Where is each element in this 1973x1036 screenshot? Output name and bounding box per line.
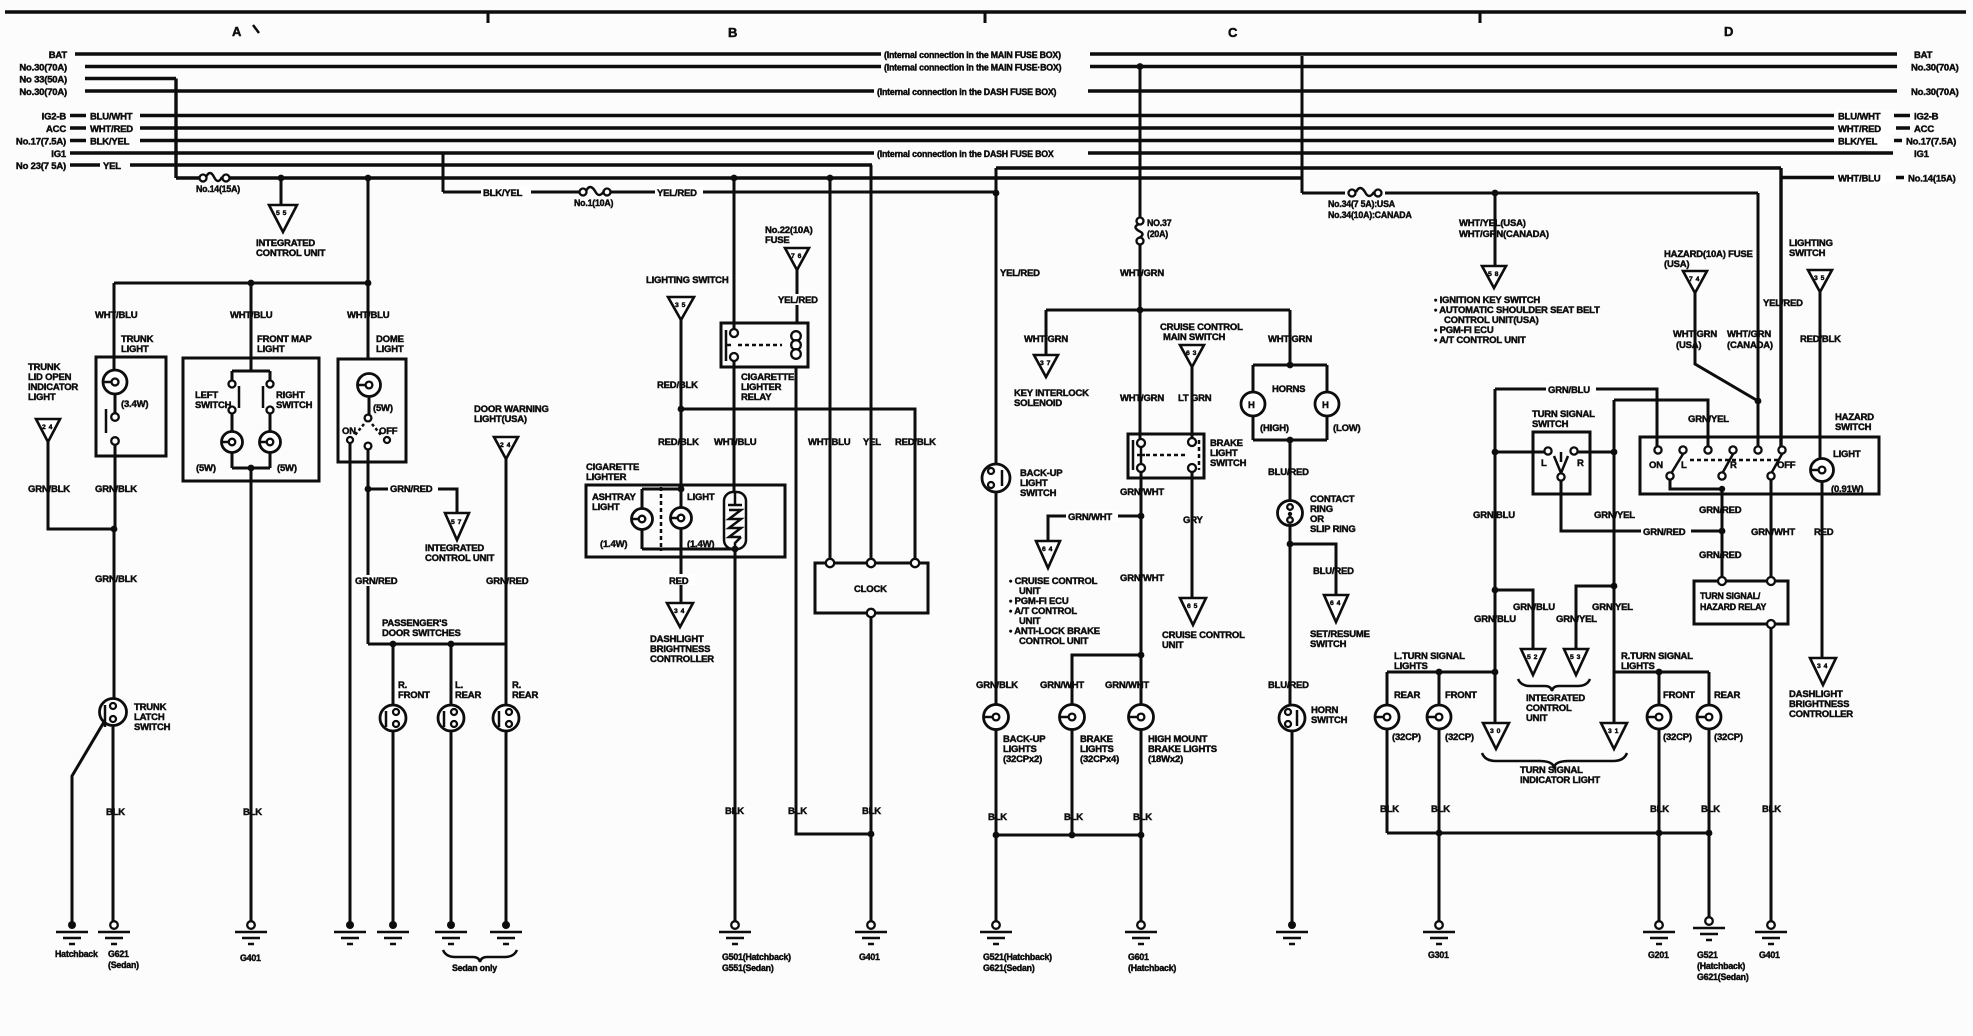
wire relay coil down BLK	[796, 367, 871, 834]
label WHT/BLU right	[1836, 172, 1894, 183]
wire L turn rail	[1387, 671, 1495, 674]
wire map inner split	[232, 359, 270, 381]
svg-text:No.14(15A): No.14(15A)	[1908, 174, 1956, 185]
svg-text:G301: G301	[1428, 950, 1449, 960]
svg-text:3 5: 3 5	[1814, 275, 1825, 282]
ground R rear	[502, 921, 510, 929]
junction setresume tee	[1287, 541, 1294, 548]
contact ring or slip ring	[1278, 501, 1303, 526]
junction cig top	[678, 486, 685, 493]
wire drop R rear	[505, 644, 508, 705]
wire brake lights branch	[1072, 655, 1141, 705]
svg-text:A: A	[232, 24, 242, 39]
junction dome GRN/RED tee	[365, 486, 372, 493]
relay pins D	[1718, 577, 1726, 585]
wire dome bulb to switch	[368, 396, 371, 415]
svg-text:6 4: 6 4	[1330, 600, 1341, 607]
junction rail Lrear	[448, 641, 455, 648]
svg-text:GRN/BLU: GRN/BLU	[1474, 614, 1516, 625]
wire relay feed drop	[733, 178, 736, 333]
horn low	[1315, 392, 1339, 416]
svg-text:WHT/GRN(CANADA): WHT/GRN(CANADA)	[1459, 229, 1549, 240]
svg-text:GRN/RED: GRN/RED	[1699, 505, 1742, 516]
bus line No.30(70A) top	[85, 65, 1897, 68]
bus line BAT	[75, 52, 1897, 55]
wire GRN/WHT out of brake switch	[1140, 472, 1143, 655]
wire trunk latch feed	[113, 529, 116, 699]
bulb brake lights	[1060, 705, 1085, 730]
wire A distribution	[114, 282, 368, 285]
svg-text:RED/BLK: RED/BLK	[658, 437, 699, 448]
wire YEL/RED backup drop	[995, 168, 998, 464]
wire hazard fuse usa diagonal	[1695, 293, 1758, 401]
svg-text:BLK: BLK	[243, 807, 262, 818]
wire horns frame	[1253, 365, 1327, 440]
wire ts right	[1578, 451, 1614, 454]
svg-text:LIGHT: LIGHT	[592, 502, 620, 513]
svg-text:GRN/WHT: GRN/WHT	[1068, 512, 1112, 523]
ground R front	[389, 921, 397, 929]
ground G401 A	[247, 921, 255, 929]
wire vertical from BAT to fuse34 line	[1301, 56, 1304, 193]
switch dome contacts	[365, 415, 372, 422]
brace turn signal indicator	[1482, 753, 1627, 767]
wire horns to contact ring	[1289, 440, 1292, 501]
bulb L front	[1427, 705, 1451, 729]
svg-text:(LOW): (LOW)	[1333, 423, 1361, 434]
connector 24 triangle trunk lid	[36, 419, 60, 442]
wire R turn rail	[1614, 671, 1709, 674]
svg-text:SWITCH: SWITCH	[195, 400, 232, 411]
junction horns bottom	[1287, 437, 1294, 444]
fuse No.1(10A)	[580, 189, 587, 196]
wire No.33 drop to fuse line	[174, 79, 177, 179]
box turn signal hazard relay	[1694, 581, 1788, 624]
brake switch pins	[1137, 439, 1145, 447]
wire trunk light drop	[113, 283, 116, 371]
wire GRN/RED relay feed	[1721, 489, 1724, 581]
svg-text:BLK/YEL: BLK/YEL	[1838, 137, 1878, 148]
svg-text:TURN SIGNAL/: TURN SIGNAL/	[1700, 591, 1761, 601]
connector 34 triangle dashlight D	[1810, 658, 1836, 685]
svg-text:WHT/GRN: WHT/GRN	[1120, 393, 1164, 404]
svg-text:BLU/RED: BLU/RED	[1268, 467, 1309, 478]
junction L turn front	[1436, 669, 1443, 676]
svg-text:3 4: 3 4	[674, 608, 685, 615]
svg-text:RED/BLK: RED/BLK	[657, 380, 698, 391]
junction usa canada join	[1755, 398, 1762, 405]
svg-text:CONTROL UNIT: CONTROL UNIT	[256, 248, 326, 259]
svg-text:IG1: IG1	[51, 149, 67, 160]
svg-text:6 5: 6 5	[1187, 603, 1198, 610]
svg-text:BLU/RED: BLU/RED	[1268, 680, 1309, 691]
svg-text:6 4: 6 4	[1042, 546, 1053, 553]
ground horn switch	[1288, 921, 1296, 929]
connector 63 triangle	[1180, 345, 1204, 367]
svg-text:(Internal connection in the DA: (Internal connection in the DASH FUSE BO…	[877, 87, 1057, 97]
ground G501	[731, 921, 739, 929]
wire RED hazard bulb down	[1821, 481, 1824, 658]
bulb L rear	[1375, 705, 1399, 729]
box clock	[815, 563, 928, 613]
bus line No.17(7.5A)	[70, 139, 1834, 142]
svg-text:RED/BLK: RED/BLK	[895, 437, 936, 448]
svg-text:WHT/GRN: WHT/GRN	[1120, 268, 1164, 279]
wire map light drop	[250, 283, 253, 371]
svg-text:CLOCK: CLOCK	[854, 584, 887, 595]
svg-text:LIGHT(USA): LIGHT(USA)	[474, 414, 527, 425]
wire latch to ground	[112, 726, 115, 925]
svg-text:FUSE: FUSE	[765, 235, 790, 246]
svg-text:YEL/RED: YEL/RED	[1763, 298, 1803, 309]
svg-text:H: H	[1322, 400, 1329, 411]
wire grnwht to ICU64	[1048, 516, 1141, 541]
svg-text:WHT/RED: WHT/RED	[90, 124, 133, 135]
box cigarette lighter	[586, 485, 785, 557]
label GRN/RED ts	[1641, 525, 1691, 536]
svg-text:LIGHTER: LIGHTER	[586, 472, 627, 483]
wire clock whtblu drop	[829, 178, 832, 563]
svg-text:(Sedan): (Sedan)	[108, 960, 139, 970]
svg-text:GRN/RED: GRN/RED	[1699, 550, 1742, 561]
ground dome ON	[346, 921, 354, 929]
svg-text:D: D	[1724, 24, 1733, 39]
svg-text:BLK: BLK	[1380, 804, 1399, 815]
ground hatchback	[68, 921, 76, 929]
svg-text:YEL/RED: YEL/RED	[657, 188, 697, 199]
svg-text:LIGHT: LIGHT	[257, 344, 285, 355]
svg-text:5 2: 5 2	[1527, 654, 1538, 661]
wire cruise main drop	[1191, 367, 1194, 439]
svg-text:R: R	[1577, 458, 1584, 469]
svg-text:REAR: REAR	[512, 690, 538, 701]
svg-text:LIGHT: LIGHT	[121, 344, 149, 355]
svg-text:SWITCH: SWITCH	[1210, 458, 1247, 469]
junction ICU55 tap	[278, 175, 285, 182]
box brake light switch	[1128, 434, 1204, 478]
bulb map right 5W	[260, 432, 281, 453]
wire highmount to bulb	[1140, 655, 1143, 705]
svg-text:FRONT: FRONT	[1663, 690, 1695, 701]
svg-text:BLK/YEL: BLK/YEL	[483, 188, 523, 199]
svg-text:WHT/BLU: WHT/BLU	[1838, 174, 1881, 185]
svg-text:LIGHTING SWITCH: LIGHTING SWITCH	[646, 275, 729, 286]
junction R turn front	[1656, 669, 1663, 676]
svg-text:No 33(50A): No 33(50A)	[19, 75, 67, 86]
svg-text:FRONT: FRONT	[1445, 690, 1477, 701]
wire dome ON to ground	[349, 443, 352, 925]
bulb R rear	[1697, 705, 1721, 729]
svg-text:IG2-B: IG2-B	[1914, 112, 1939, 123]
bulb high mount brake lights	[1129, 705, 1154, 730]
wire horns feed	[1289, 310, 1292, 365]
wire L front drop	[1438, 672, 1441, 705]
wire cig to ground G501	[734, 549, 737, 925]
svg-text:CONTROLLER: CONTROLLER	[1789, 709, 1853, 720]
svg-text:SWITCH: SWITCH	[1310, 639, 1347, 650]
svg-text:(HIGH): (HIGH)	[1260, 423, 1289, 434]
junction c rail 3	[1138, 832, 1145, 839]
svg-text:(CANADA): (CANADA)	[1727, 340, 1773, 351]
wire WHT/BLU dome feed drop	[367, 178, 370, 359]
ground G301	[1435, 921, 1443, 929]
switch trunk light contacts	[111, 413, 119, 421]
svg-text:G551(Sedan): G551(Sedan)	[722, 963, 774, 973]
svg-text:(1.4W): (1.4W)	[600, 539, 627, 550]
junction ts right	[1611, 449, 1618, 456]
wire cig inner bottom	[642, 528, 735, 549]
box hazard switch	[1640, 437, 1879, 494]
svg-text:(32CP): (32CP)	[1392, 732, 1421, 743]
bulb map left 5W	[222, 432, 243, 453]
label YEL/RED relay	[776, 294, 820, 305]
relay contacts	[730, 329, 738, 337]
bus line IG2-B	[70, 114, 1834, 117]
switch horn	[1279, 705, 1305, 731]
svg-text:CONTROLLER: CONTROLLER	[650, 654, 714, 665]
hazard bottom link	[1670, 480, 1722, 489]
svg-text:BLU/WHT: BLU/WHT	[1838, 112, 1881, 123]
wire GRN/YEL up link	[1614, 400, 1708, 672]
switch door R front	[380, 705, 406, 731]
switch dome levers	[355, 424, 381, 435]
label RED	[667, 574, 695, 585]
svg-text:(32CP): (32CP)	[1445, 732, 1474, 743]
wire map switch to bulbs	[232, 413, 270, 432]
wire clock to ground G401	[870, 617, 873, 925]
svg-text:GRN/YEL: GRN/YEL	[1688, 414, 1729, 425]
svg-text:(Hatchback): (Hatchback)	[1697, 961, 1745, 971]
svg-text:SLIP RING: SLIP RING	[1310, 524, 1356, 535]
wire map bulbs join	[232, 452, 270, 468]
wire R front to ground	[392, 731, 395, 925]
connector 64 triangle cruise	[1036, 541, 1060, 568]
connector 53 triangle	[1564, 649, 1588, 675]
wire door switch rail	[368, 643, 506, 646]
connector 35 triangle B	[668, 297, 694, 320]
svg-text:UNIT: UNIT	[1162, 640, 1184, 651]
svg-text:INDICATOR LIGHT: INDICATOR LIGHT	[1520, 775, 1600, 786]
wire ICU30 drop	[1494, 672, 1497, 723]
wire ts common GRN/RED	[1561, 481, 1722, 531]
svg-text:• A/T CONTROL UNIT: • A/T CONTROL UNIT	[1434, 335, 1526, 346]
svg-text:MAIN SWITCH: MAIN SWITCH	[1163, 332, 1226, 343]
bus line IG1	[70, 151, 1893, 154]
svg-text:NO.37: NO.37	[1147, 218, 1172, 228]
ground G521 D	[1705, 917, 1713, 925]
svg-text:No.30(70A): No.30(70A)	[1911, 63, 1959, 74]
junction horns top	[1287, 362, 1294, 369]
svg-text:5 5: 5 5	[276, 210, 287, 217]
connector 35 triangle D	[1808, 270, 1832, 292]
box cigarette lighter relay	[721, 323, 808, 367]
svg-text:G621: G621	[108, 949, 129, 959]
wire WHT/YEL drop to 58	[1494, 193, 1497, 266]
label BLK/YEL fuse1	[481, 186, 531, 197]
wire GRN/RED to ICU57	[368, 489, 457, 513]
svg-text:WHT/BLU: WHT/BLU	[347, 310, 390, 321]
junction relay feed tap	[731, 175, 738, 182]
hazard levers	[1672, 454, 1782, 472]
junction triangle58 tap	[1492, 190, 1499, 197]
wire WHT/GRN canada drop	[1757, 193, 1760, 450]
svg-text:R: R	[1730, 460, 1737, 471]
svg-text:(0.91W): (0.91W)	[1831, 484, 1863, 495]
svg-text:(Internal connection in the MA: (Internal connection in the MAIN FUSE·BO…	[884, 63, 1062, 73]
svg-text:WHT/RED: WHT/RED	[1838, 124, 1881, 135]
junction c rail 2	[1069, 832, 1076, 839]
svg-text:(3.4W): (3.4W)	[121, 399, 148, 410]
junction trunk wire join	[111, 526, 118, 533]
svg-text:No.34(7 5A):USA: No.34(7 5A):USA	[1328, 199, 1396, 209]
bulb R front	[1647, 705, 1671, 729]
svg-text:BAT: BAT	[1914, 50, 1933, 61]
wire relay D to ground	[1770, 628, 1773, 925]
svg-text:UNIT: UNIT	[1526, 713, 1548, 724]
ground G201	[1655, 921, 1663, 929]
wire brake bulb down	[1071, 729, 1074, 835]
horn high	[1241, 392, 1265, 416]
svg-text:BLK: BLK	[1701, 804, 1720, 815]
connector 37 triangle	[1034, 355, 1058, 377]
svg-text:SWITCH: SWITCH	[276, 400, 313, 411]
heater element cigarette lighter	[724, 492, 746, 549]
wire R rear drop	[1708, 672, 1711, 705]
junction grnyel branch	[1611, 583, 1618, 590]
svg-text:(32CP): (32CP)	[1714, 732, 1743, 743]
svg-text:(Internal connection in the MA: (Internal connection in the MAIN FUSE BO…	[884, 50, 1061, 60]
svg-text:G501(Hatchback): G501(Hatchback)	[722, 952, 791, 962]
wire L rear bulb down	[1386, 729, 1389, 833]
wire GRY out	[1191, 472, 1194, 598]
svg-text:C: C	[1228, 25, 1238, 40]
svg-text:GRN/WHT: GRN/WHT	[1751, 527, 1795, 538]
svg-text:BLK: BLK	[106, 807, 125, 818]
svg-text:BLK: BLK	[1762, 804, 1781, 815]
svg-text:(20A): (20A)	[1147, 229, 1168, 239]
label WHT/RED right	[1836, 123, 1896, 134]
svg-text:DOOR SWITCHES: DOOR SWITCHES	[382, 628, 461, 639]
svg-text:ACC: ACC	[46, 124, 66, 135]
svg-text:ON: ON	[1649, 460, 1663, 471]
wire drop R front	[392, 644, 395, 705]
switch trunk latch	[100, 699, 127, 726]
hazard bottom contacts	[1666, 472, 1673, 479]
svg-text:GRN/WHT: GRN/WHT	[1120, 573, 1164, 584]
svg-text:REAR: REAR	[455, 690, 481, 701]
svg-text:FRONT: FRONT	[398, 690, 430, 701]
svg-text:GRN/WHT: GRN/WHT	[1040, 680, 1084, 691]
junction grnred join	[1719, 528, 1726, 535]
wire door warning drop	[505, 459, 508, 644]
svg-text:GRN/WHT: GRN/WHT	[1120, 487, 1164, 498]
connector 55 triangle	[269, 205, 297, 232]
wire dome common down	[367, 449, 370, 644]
svg-text:RED: RED	[669, 576, 689, 587]
wire drop L rear	[450, 644, 453, 705]
ground G401 B	[867, 921, 875, 929]
junction dome corner	[365, 280, 372, 287]
svg-text:REAR: REAR	[1714, 690, 1740, 701]
svg-text:G621(Sedan): G621(Sedan)	[1697, 972, 1749, 982]
label BLU/WHT right	[1836, 110, 1896, 121]
wire WHT/GRN main drop	[1139, 67, 1142, 311]
svg-text:3 1: 3 1	[1608, 728, 1619, 735]
svg-text:YEL/RED: YEL/RED	[778, 295, 818, 306]
wire contact ring down	[1289, 525, 1292, 705]
svg-text:ON: ON	[342, 426, 356, 437]
connector 34 triangle dashlight B	[667, 603, 693, 627]
svg-text:RED: RED	[1814, 527, 1834, 538]
wire key interlock drop	[1045, 310, 1048, 355]
wire YEL bus corner to clock	[870, 165, 873, 563]
wire backup switch to bulb	[995, 492, 998, 705]
svg-text:6 3: 6 3	[1186, 350, 1197, 357]
svg-text:IG2-B: IG2-B	[42, 112, 67, 123]
svg-text:G601: G601	[1128, 952, 1149, 962]
svg-text:7 4: 7 4	[1689, 276, 1700, 283]
svg-text:REAR: REAR	[1394, 690, 1420, 701]
svg-text:SWITCH: SWITCH	[1020, 488, 1057, 499]
svg-text:5 7: 5 7	[451, 519, 462, 526]
svg-text:BLK: BLK	[988, 812, 1007, 823]
svg-text:(5W): (5W)	[196, 463, 216, 474]
svg-text:B: B	[728, 25, 737, 40]
svg-text:L: L	[1681, 460, 1687, 471]
svg-text:2 4: 2 4	[42, 424, 53, 431]
svg-text:(USA): (USA)	[1676, 340, 1701, 351]
switch door L rear	[438, 705, 464, 731]
switch dome side contacts ON OFF	[347, 437, 353, 443]
svg-text:GRN/BLK: GRN/BLK	[95, 484, 137, 495]
svg-text:H: H	[1248, 400, 1255, 411]
wire lid indicator to junction	[48, 442, 114, 529]
svg-text:GRN/BLU: GRN/BLU	[1473, 510, 1515, 521]
wire relay out WHT/BLU	[733, 361, 736, 493]
wire brake switch feed	[1139, 310, 1142, 439]
switch door R rear	[493, 705, 519, 731]
junction highmount tee	[1138, 652, 1145, 659]
wire GRN/WHT relay feed	[1770, 480, 1773, 581]
top border line	[5, 10, 1966, 13]
switch trunk flapper	[105, 409, 108, 433]
connector 30 triangle	[1483, 723, 1509, 749]
bulb cig light	[671, 508, 692, 529]
wire ICU55 drop	[280, 178, 283, 205]
svg-text:SWITCH: SWITCH	[1789, 248, 1826, 259]
svg-text:3 4: 3 4	[1817, 663, 1828, 670]
bulb hazard light	[1811, 459, 1834, 482]
svg-text:WHT/GRN: WHT/GRN	[1727, 329, 1771, 340]
svg-text:(USA): (USA)	[1664, 259, 1689, 270]
switch backup light	[982, 464, 1010, 492]
svg-text:BLU/WHT: BLU/WHT	[90, 112, 133, 123]
junction d rail 3	[1706, 830, 1713, 837]
connector 31 triangle	[1601, 723, 1627, 749]
svg-text:GRN/YEL: GRN/YEL	[1594, 510, 1635, 521]
wire R front drop	[1658, 672, 1661, 705]
svg-text:LIGHTS: LIGHTS	[1621, 661, 1655, 672]
relay dashed link	[738, 344, 782, 347]
svg-text:GRN/BLK: GRN/BLK	[976, 680, 1018, 691]
svg-text:WHT/GRN: WHT/GRN	[1268, 334, 1312, 345]
svg-text:Sedan only: Sedan only	[452, 963, 497, 973]
svg-text:SWITCH: SWITCH	[1835, 422, 1872, 433]
svg-text:GRN/BLU: GRN/BLU	[1513, 602, 1555, 613]
svg-text:CONTROL UNIT: CONTROL UNIT	[425, 553, 495, 564]
junction redblk tee	[678, 406, 685, 413]
svg-text:G621(Sedan): G621(Sedan)	[983, 963, 1035, 973]
